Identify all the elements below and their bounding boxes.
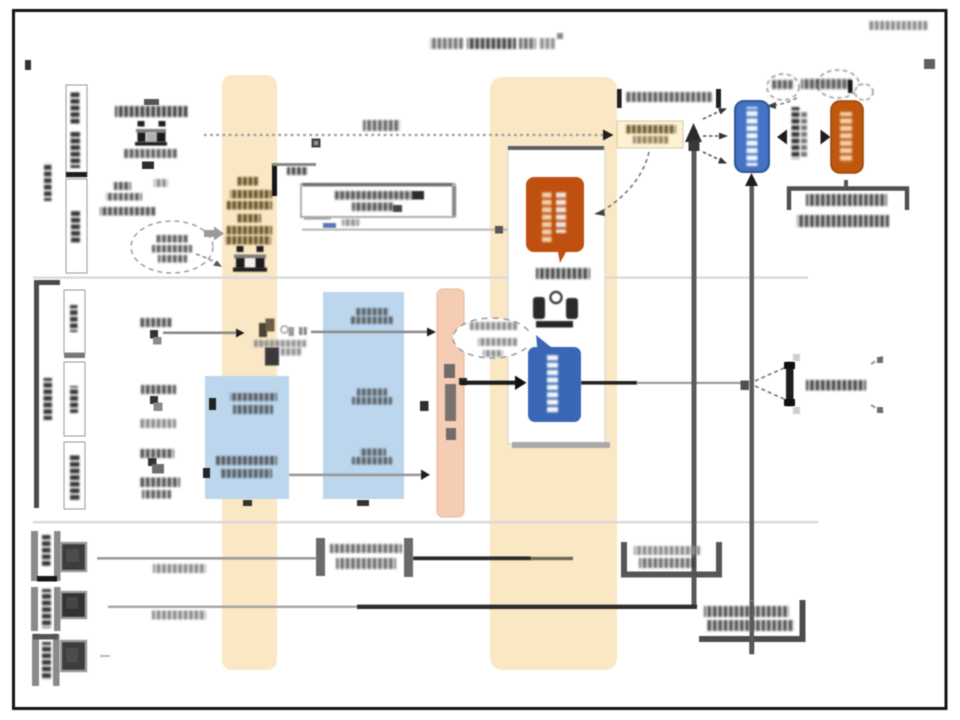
lane box T2 <box>66 179 87 273</box>
label above dotted line <box>363 120 400 131</box>
row B icon <box>61 592 86 618</box>
row A black line to folder <box>413 556 531 560</box>
bracket label <box>617 89 622 108</box>
lane separator 1 <box>33 276 808 278</box>
row3 line into pink bar <box>289 474 421 477</box>
brace label lines <box>806 194 887 206</box>
row A line <box>97 557 316 560</box>
shared folder bracket 1 <box>624 542 719 575</box>
TEL/FAX yellow note <box>617 121 683 148</box>
reception icon 2 <box>233 246 267 272</box>
dashed arrow cloud2 -> pill <box>775 98 797 105</box>
orange speech bubble <box>526 177 584 263</box>
lane box T1 <box>66 85 87 177</box>
top-right corner note <box>868 21 928 30</box>
row1 line into pink bar <box>311 331 428 334</box>
label under bubble <box>536 268 590 279</box>
underbrace below orange pill <box>844 180 848 187</box>
orange pill <box>831 101 863 173</box>
caption under icon 1 <box>124 149 178 158</box>
meeting icon <box>533 292 578 328</box>
dashed curve TEL box to white box <box>604 152 649 210</box>
phone/FAX note box (double border) <box>301 183 456 228</box>
gray block arrow cloud to band <box>204 227 224 241</box>
row1 text + person icon <box>139 318 172 327</box>
yellow band 2 <box>490 77 617 670</box>
blue box 2 <box>323 292 404 499</box>
corner mark left <box>25 60 31 70</box>
cloud 1 (dashed ellipse) <box>131 221 213 273</box>
operator cluster on band <box>254 319 307 366</box>
row B label <box>31 587 38 631</box>
lane box L2 <box>64 362 85 436</box>
fan dashed arrows to pill <box>703 111 720 119</box>
tick between box2 and pink bar <box>420 401 429 411</box>
pink/salmon vertical bar <box>437 289 464 517</box>
small square under dotted line <box>312 139 321 148</box>
row A icon <box>61 543 86 571</box>
row A terminators and label <box>316 538 325 576</box>
lane box L1 <box>64 290 85 353</box>
small dark mark <box>142 162 154 170</box>
corner mark right (page no) <box>924 59 935 69</box>
blue callout box <box>536 335 552 355</box>
row A label <box>31 531 38 581</box>
lane separator 2 <box>33 521 818 523</box>
dotted share line <box>204 134 603 136</box>
connector line to white box <box>302 229 508 231</box>
section bracket <box>37 283 61 509</box>
megaphone annotation (right middle) <box>755 368 784 381</box>
vertical pole A <box>692 130 697 607</box>
row3 text + icon <box>139 449 174 458</box>
double arrow between pills <box>777 130 787 145</box>
yellow band 1 text <box>237 177 259 186</box>
small gray text right <box>154 179 168 187</box>
reception icon 1 <box>135 121 167 146</box>
tick below blue box1 <box>243 500 252 506</box>
connector black bar + gray line (top middle) <box>272 164 277 196</box>
row1 arrow to cluster <box>163 332 236 335</box>
vertical pole B + arrowhead <box>750 180 755 654</box>
row2 text + icon <box>141 385 176 394</box>
dashed arrow cloud to icon 2 <box>196 254 218 264</box>
row C icon <box>61 641 86 671</box>
row C label <box>32 634 39 686</box>
left text block <box>114 182 131 190</box>
text over reception icon <box>144 99 159 105</box>
thick arrow pink bar -> blue callout <box>459 378 467 385</box>
blue pill <box>735 101 769 172</box>
white dashed bubble <box>453 318 531 358</box>
pole B continues through bracket 2 <box>750 601 755 654</box>
shared folder bracket 2 <box>699 601 796 636</box>
blue box 1 <box>205 376 289 499</box>
section label (top, vertical text) <box>44 163 52 201</box>
cloud 2 top right <box>767 70 873 100</box>
lane box L3 <box>64 442 85 509</box>
yellow band 1 <box>222 75 277 670</box>
section label (middle, vertical) <box>44 378 53 420</box>
tick below blue box2 <box>357 500 369 506</box>
row B line <box>108 606 357 608</box>
row C small dash <box>100 655 110 657</box>
line callout -> right <box>581 381 637 385</box>
title text <box>430 38 464 49</box>
